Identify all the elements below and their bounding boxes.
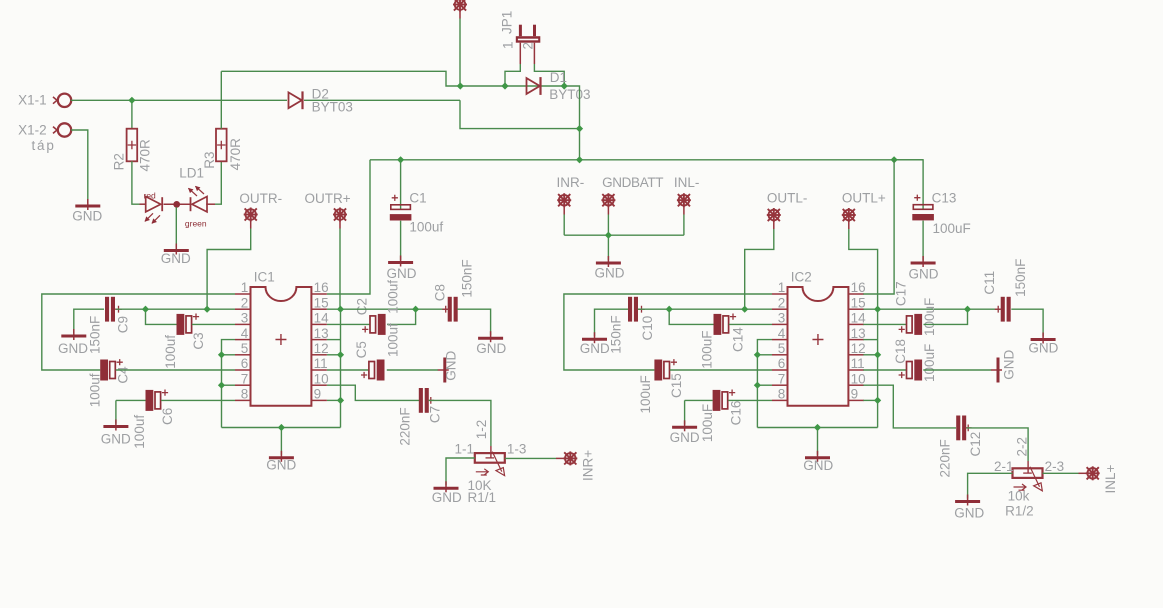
svg-text:OUTL-: OUTL- (767, 191, 808, 206)
svg-text:10: 10 (851, 371, 866, 386)
svg-text:1: 1 (778, 280, 786, 295)
svg-text:4: 4 (778, 326, 786, 341)
svg-text:8: 8 (778, 387, 786, 402)
svg-text:C2: C2 (355, 298, 370, 315)
svg-text:C11: C11 (982, 271, 997, 295)
svg-text:14: 14 (851, 311, 867, 326)
svg-text:C14: C14 (731, 327, 746, 352)
svg-text:GND: GND (1002, 350, 1017, 380)
svg-text:150nF: 150nF (88, 316, 103, 354)
svg-text:10: 10 (314, 371, 329, 386)
svg-text:11: 11 (314, 356, 328, 371)
svg-text:INR+: INR+ (581, 450, 596, 481)
svg-text:GND: GND (595, 266, 625, 281)
svg-text:LD1: LD1 (179, 166, 204, 181)
svg-text:100uF: 100uF (638, 375, 653, 413)
svg-text:1-2: 1-2 (474, 420, 489, 440)
svg-text:15: 15 (851, 295, 866, 310)
svg-text:GND: GND (432, 490, 462, 505)
svg-text:GND: GND (387, 266, 417, 281)
svg-text:12: 12 (314, 341, 329, 356)
svg-text:1-1: 1-1 (455, 442, 475, 457)
svg-text:1: 1 (501, 41, 516, 49)
svg-text:GND: GND (580, 341, 610, 356)
svg-text:3: 3 (241, 311, 249, 326)
svg-text:220nF: 220nF (938, 439, 953, 477)
svg-text:GND: GND (803, 458, 833, 473)
svg-text:BYT03: BYT03 (549, 87, 590, 102)
svg-text:10k: 10k (1008, 489, 1030, 504)
svg-text:4: 4 (241, 326, 249, 341)
svg-text:2: 2 (778, 295, 786, 310)
svg-text:9: 9 (851, 387, 859, 402)
svg-text:5: 5 (241, 341, 249, 356)
svg-text:GND: GND (266, 458, 296, 473)
svg-text:16: 16 (851, 280, 866, 295)
svg-text:OUTR-: OUTR- (239, 191, 282, 206)
svg-text:16: 16 (314, 280, 329, 295)
svg-text:GNDBATT: GNDBATT (602, 175, 663, 190)
svg-text:C15: C15 (669, 373, 684, 398)
svg-text:OUTR+: OUTR+ (305, 191, 351, 206)
svg-text:GND: GND (444, 351, 459, 381)
svg-text:C5: C5 (354, 341, 369, 358)
svg-text:C10: C10 (640, 316, 655, 341)
svg-text:11: 11 (851, 356, 865, 371)
svg-text:150nF: 150nF (609, 315, 624, 353)
svg-text:5: 5 (778, 341, 786, 356)
svg-text:6: 6 (778, 356, 786, 371)
svg-text:100uf: 100uf (88, 373, 103, 407)
svg-text:100uF: 100uF (922, 344, 937, 382)
svg-text:14: 14 (314, 311, 330, 326)
svg-text:R3: R3 (202, 152, 217, 169)
svg-text:470R: 470R (228, 138, 243, 171)
svg-text:red: red (144, 190, 157, 200)
svg-text:GND: GND (476, 341, 506, 356)
svg-text:100uf: 100uf (132, 415, 147, 449)
svg-text:470R: 470R (138, 139, 153, 172)
svg-text:C9: C9 (116, 316, 131, 333)
svg-text:C16: C16 (729, 401, 744, 426)
svg-text:7: 7 (778, 371, 786, 386)
svg-text:100uF: 100uF (700, 404, 715, 442)
svg-text:150nF: 150nF (1013, 259, 1028, 297)
svg-text:green: green (185, 218, 207, 228)
svg-text:1-3: 1-3 (507, 442, 527, 457)
svg-text:100uf: 100uf (385, 323, 400, 357)
svg-text:GND: GND (909, 267, 939, 282)
svg-text:7: 7 (241, 371, 249, 386)
svg-text:GND: GND (101, 432, 131, 447)
svg-text:IC2: IC2 (791, 269, 812, 284)
svg-text:100uF: 100uF (933, 221, 971, 236)
svg-text:13: 13 (851, 326, 866, 341)
svg-text:8: 8 (241, 387, 249, 402)
svg-text:C3: C3 (191, 332, 206, 349)
svg-text:C17: C17 (893, 281, 908, 306)
svg-text:100uF: 100uF (922, 298, 937, 336)
svg-text:1: 1 (241, 280, 249, 295)
svg-text:15: 15 (314, 295, 329, 310)
svg-text:táp: táp (32, 138, 56, 153)
svg-text:R1/1: R1/1 (468, 490, 497, 505)
svg-text:JP1: JP1 (500, 11, 515, 34)
svg-text:100uf: 100uf (163, 335, 178, 369)
svg-text:GND: GND (1028, 341, 1058, 356)
svg-text:6: 6 (241, 356, 249, 371)
svg-text:INL+: INL+ (1103, 464, 1118, 493)
svg-text:2-2: 2-2 (1015, 437, 1030, 457)
svg-text:C7: C7 (428, 406, 443, 423)
svg-text:C8: C8 (433, 284, 448, 301)
svg-text:100uF: 100uF (700, 331, 715, 369)
svg-text:100uf: 100uf (409, 220, 443, 235)
svg-text:GND: GND (72, 209, 102, 224)
svg-text:C18: C18 (893, 339, 908, 364)
svg-text:X1-2: X1-2 (18, 122, 47, 137)
svg-text:C6: C6 (160, 408, 175, 425)
svg-text:2-1: 2-1 (994, 459, 1014, 474)
svg-text:150nF: 150nF (460, 259, 475, 297)
svg-text:OUTL+: OUTL+ (842, 191, 886, 206)
svg-text:X1-1: X1-1 (18, 93, 47, 108)
svg-text:GND: GND (161, 251, 191, 266)
svg-text:C4: C4 (116, 366, 131, 384)
svg-text:R1/2: R1/2 (1005, 503, 1034, 518)
svg-text:GND: GND (670, 430, 700, 445)
svg-text:C1: C1 (409, 191, 426, 206)
svg-text:C12: C12 (968, 432, 983, 457)
svg-text:R2: R2 (111, 153, 126, 170)
svg-text:9: 9 (314, 387, 322, 402)
svg-text:2-3: 2-3 (1045, 459, 1065, 474)
svg-text:INL-: INL- (674, 175, 700, 190)
svg-text:IC1: IC1 (254, 269, 275, 284)
svg-text:220nF: 220nF (398, 407, 413, 445)
svg-text:3: 3 (778, 311, 786, 326)
svg-text:C13: C13 (932, 191, 957, 206)
svg-text:100uf: 100uf (385, 280, 400, 314)
svg-text:2: 2 (521, 42, 536, 50)
svg-text:GND: GND (954, 506, 984, 521)
svg-text:INR-: INR- (557, 175, 585, 190)
svg-text:GND: GND (58, 341, 88, 356)
svg-text:13: 13 (314, 326, 329, 341)
svg-text:BYT03: BYT03 (312, 100, 353, 115)
svg-text:2: 2 (241, 295, 249, 310)
svg-text:12: 12 (851, 341, 866, 356)
